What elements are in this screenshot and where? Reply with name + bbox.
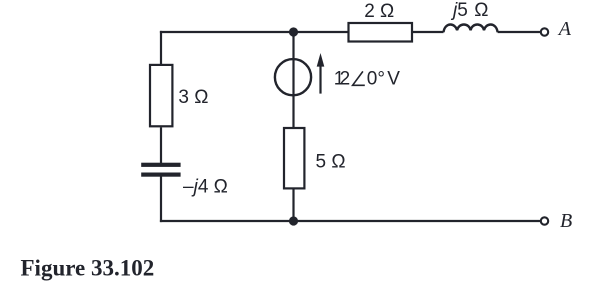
wire left vertical top segment — [160, 31, 162, 64]
wire 5 ohm box to bottom junction — [292, 190, 294, 222]
svg-text:2: 2 — [340, 69, 351, 90]
wire from inductor to terminal A — [498, 31, 541, 33]
svg-text:B: B — [560, 210, 572, 232]
svg-text:V: V — [387, 69, 400, 90]
wire middle vertical through source — [292, 32, 294, 127]
wire bottom horizontal — [160, 220, 541, 222]
inductor j5 ohm (coil) — [444, 25, 498, 33]
source U1 (circle, 12 angle 0 V) — [275, 59, 311, 95]
wire between 3 ohm box and capacitor — [160, 127, 162, 163]
svg-text:2 Ω: 2 Ω — [364, 1, 394, 22]
wire capacitor to bottom left corner — [160, 177, 162, 223]
svg-text:Ω: Ω — [474, 0, 488, 21]
angle symbol (drawn) — [353, 71, 365, 85]
svg-text:5 Ω: 5 Ω — [316, 152, 346, 173]
resistor 5 ohm (box) — [284, 128, 304, 188]
svg-text:0°: 0° — [367, 69, 385, 90]
resistor 3 ohm (box) — [150, 65, 172, 126]
svg-text:Figure 33.102: Figure 33.102 — [21, 256, 155, 281]
wire between 2 ohm box and inductor — [413, 31, 444, 33]
resistor 2 ohm (box) — [349, 23, 413, 42]
svg-text:j5: j5 — [450, 0, 468, 21]
capacitor -j4 ohm (plates) — [141, 163, 180, 167]
terminal A (open circle) — [541, 28, 548, 35]
node junction top (dot) — [289, 27, 298, 36]
node junction bottom (dot) — [289, 216, 298, 225]
svg-text:3 Ω: 3 Ω — [178, 87, 208, 108]
arrow source polarity (up) — [319, 64, 321, 94]
wire top horizontal left segment — [160, 31, 348, 33]
svg-text:–j4 Ω: –j4 Ω — [183, 176, 228, 197]
terminal B (open circle) — [541, 217, 548, 224]
svg-text:A: A — [557, 18, 572, 40]
